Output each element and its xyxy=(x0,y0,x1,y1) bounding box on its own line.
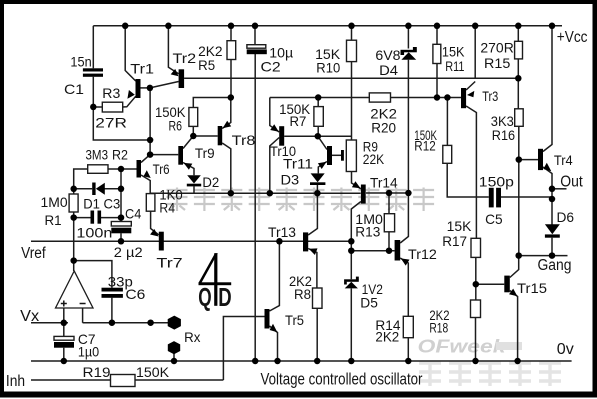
svg-text:R2: R2 xyxy=(112,147,128,163)
svg-text:C1: C1 xyxy=(64,81,84,97)
resistor R11 15K xyxy=(433,44,441,63)
wire op-amp output node to C6 top xyxy=(74,261,112,288)
svg-text:100n: 100n xyxy=(76,225,112,241)
resistor R12 150K xyxy=(443,145,452,163)
transistor Tr8 xyxy=(218,126,223,145)
terminal pad Rx upper hexagon xyxy=(168,316,181,330)
svg-text:Inh: Inh xyxy=(6,373,25,390)
diode D2 xyxy=(187,175,201,183)
transistor Tr10 xyxy=(279,126,284,146)
resistor R19 150K xyxy=(111,375,136,387)
terminal pad Rx lower hexagon xyxy=(168,341,180,354)
wire op-amp output stub xyxy=(73,261,75,271)
wire C7 bottom lead xyxy=(63,348,65,361)
wire D1 left lead xyxy=(74,188,93,190)
wire Tr2 collector long line to R15 node xyxy=(184,77,518,79)
svg-text:Tr12: Tr12 xyxy=(408,246,437,262)
wire Rx lower stub xyxy=(173,354,175,362)
transistor Tr12 xyxy=(395,240,401,261)
svg-text:Tr4: Tr4 xyxy=(554,152,573,168)
node dot op-amp output xyxy=(70,257,77,264)
resistor R17 15K xyxy=(471,238,481,257)
resistor R20 2K2 xyxy=(369,93,390,102)
resistor R10 15K xyxy=(347,40,357,61)
wire R7 top lead xyxy=(317,98,319,107)
wire D4 top lead from rail xyxy=(407,26,409,49)
svg-text:R7: R7 xyxy=(290,113,307,129)
wire R18 bottom to 0v xyxy=(475,318,477,362)
wire Tr15 base line xyxy=(476,283,505,285)
svg-text:Tr11: Tr11 xyxy=(283,156,313,172)
svg-text:Tr13: Tr13 xyxy=(268,224,296,240)
wire y97.5 right segment to Tr3 base xyxy=(270,97,461,99)
wire +Vcc top rail xyxy=(93,25,562,27)
svg-text:R15: R15 xyxy=(484,55,511,71)
transistor Tr6 xyxy=(137,160,142,178)
resistor R8 2K2 xyxy=(313,288,323,308)
wire R5 top lead xyxy=(230,26,232,41)
node dots base lines xyxy=(190,133,197,140)
wire R1 top lead xyxy=(73,189,75,194)
svg-text:R12: R12 xyxy=(414,137,436,153)
resistor R13 1M0 xyxy=(384,214,394,232)
wire R14 bottom lead xyxy=(407,338,409,361)
node dots Gang line xyxy=(515,252,522,259)
svg-text:Tr2: Tr2 xyxy=(173,50,197,66)
svg-text:D6: D6 xyxy=(557,209,575,225)
op-amp input polarity signs xyxy=(61,301,86,307)
wire Vx line xyxy=(31,322,68,324)
wire Tr3 emitter diagonal xyxy=(466,82,475,91)
wire Tr9 base from node B xyxy=(150,154,178,156)
wire node x121 vertical xyxy=(120,169,122,221)
wire D4 bottom lead xyxy=(407,60,409,193)
wire Inh line xyxy=(31,379,223,381)
svg-text:Gang: Gang xyxy=(538,257,572,274)
wire R15 bottom to R16 xyxy=(517,59,519,109)
node dots Vref rail xyxy=(118,238,125,245)
wire R11 top lead xyxy=(436,26,438,45)
node dot Tr4 base xyxy=(516,156,523,163)
resistor R16 3K3 xyxy=(515,109,524,127)
wire R13 bottom lead xyxy=(388,232,390,251)
wire Vcc drop to Tr3 emitter corner xyxy=(474,26,476,79)
wire Tr6 collector diagonal xyxy=(141,155,150,163)
svg-text:Tr9: Tr9 xyxy=(195,145,215,161)
wire Tr12 collector up xyxy=(400,193,408,243)
wire R16 bottom to Tr4 base node and down to Gang xyxy=(518,126,520,255)
capacitor C7 1u0 bottom plate xyxy=(54,342,74,348)
svg-text:R4: R4 xyxy=(159,200,175,216)
svg-text:R5: R5 xyxy=(198,57,215,73)
node dot R2 Tr6 xyxy=(118,166,125,173)
svg-text:Out: Out xyxy=(560,174,583,191)
svg-text:Vx: Vx xyxy=(20,308,39,325)
watermark center company text xyxy=(167,188,435,212)
svg-text:Tr6: Tr6 xyxy=(153,161,170,177)
node dots on +Vcc rail xyxy=(122,23,129,30)
wire Gang line xyxy=(519,255,568,257)
wire 0v rail xyxy=(31,360,572,362)
svg-text:15n: 15n xyxy=(70,54,91,70)
wire Tr15 emitter to 0v xyxy=(510,291,518,362)
wire Tr5 collector to Vref xyxy=(270,241,280,311)
wire C5 right line to Out node xyxy=(501,196,552,198)
svg-text:2 µ2: 2 µ2 xyxy=(114,244,143,260)
wire C1 bottom to R3 node and loop to node A xyxy=(93,77,150,140)
capacitor C3 100n plates xyxy=(91,211,95,224)
wire C2 top lead xyxy=(254,26,256,45)
wire Inh riser to Tr5 base xyxy=(223,317,264,381)
resistor R18 2K2 xyxy=(471,300,481,318)
svg-text:R20: R20 xyxy=(371,120,396,136)
border frame xyxy=(0,0,597,4)
node dot Tr15 base xyxy=(473,281,480,288)
svg-text:1µ0: 1µ0 xyxy=(78,344,99,360)
svg-text:0v: 0v xyxy=(557,341,574,358)
wire Tr11 collector lead xyxy=(332,154,341,156)
capacitor C6 33p plates xyxy=(102,288,123,292)
svg-text:C4: C4 xyxy=(125,206,141,222)
svg-text:R17: R17 xyxy=(442,233,467,249)
resistor R14 2K2 xyxy=(403,316,413,337)
wire Tr10 base line xyxy=(284,135,318,137)
transistor Tr9 xyxy=(178,146,183,165)
wire node line y193 left xyxy=(150,192,361,194)
wire Tr4 base line xyxy=(519,159,538,161)
svg-text:270R: 270R xyxy=(480,40,513,56)
node dots Tr12 base line xyxy=(348,247,355,254)
transistor Tr13 xyxy=(303,232,308,251)
wire D1 right lead xyxy=(105,188,122,190)
svg-text:Tr3: Tr3 xyxy=(482,88,498,104)
svg-text:R8: R8 xyxy=(294,286,311,302)
wire R4 bottom to Tr7 emitter xyxy=(151,211,159,235)
transistor Tr14 xyxy=(361,185,366,204)
wire Tr4 collector to rail xyxy=(543,26,552,152)
capacitor C2 10u bottom plate xyxy=(247,49,267,54)
wire C3 right lead xyxy=(101,217,121,219)
node dots 0v rail xyxy=(61,358,68,365)
wire C7 top lead xyxy=(63,323,65,337)
resistor R2 3M3 xyxy=(88,165,108,174)
wire Tr13 emitter to R8 xyxy=(308,249,317,289)
svg-text:Rx: Rx xyxy=(184,329,200,345)
wire Tr11 emitter to D3 xyxy=(318,162,327,174)
wire Tr1 top lead from rail xyxy=(125,26,136,81)
svg-text:1M0: 1M0 xyxy=(41,194,68,210)
svg-text:R11: R11 xyxy=(445,58,464,74)
wire R1 node down to op-amp output xyxy=(73,218,75,261)
wire Tr5 emitter to 0v xyxy=(270,326,278,361)
wire R10 top lead xyxy=(351,26,353,40)
svg-text:D4: D4 xyxy=(379,62,398,78)
svg-text:Voltage controlled oscillator: Voltage controlled oscillator xyxy=(261,370,423,389)
wire R2 right lead xyxy=(108,168,121,170)
svg-text:D: D xyxy=(218,284,231,312)
wire R1 bottom lead xyxy=(73,212,75,218)
wire R6 top to R5 bottom xyxy=(193,98,231,108)
wire D2 cathode stub xyxy=(193,186,195,193)
zener diode D4 6V8 xyxy=(401,50,417,53)
wire Tr8 emitter up xyxy=(222,98,231,129)
watermark big chinese bottom xyxy=(419,361,561,386)
node dot Vx plus input xyxy=(61,320,68,327)
svg-text:C2: C2 xyxy=(261,59,281,75)
wire Tr11 base diagonal xyxy=(318,136,327,149)
node dots D1 R1 C3 xyxy=(70,186,77,193)
wire C6 bottom lead xyxy=(111,298,113,323)
transistor Tr7 xyxy=(159,232,164,251)
capacitor C4 top plate outline xyxy=(111,222,131,227)
wire node A to Tr2 base diagonal xyxy=(150,82,179,88)
wire D6 bottom to Gang line xyxy=(551,238,553,256)
wire Tr10 emitter riser xyxy=(270,98,279,133)
svg-text:2K2: 2K2 xyxy=(375,329,399,345)
capacitor C7 top plate outline xyxy=(54,336,74,340)
wire Tr14 collector down bus xyxy=(351,202,361,280)
wire op-amp plus input stub xyxy=(63,308,65,323)
wire Tr4 emitter to Out and D6 xyxy=(543,167,552,225)
svg-text:22K: 22K xyxy=(363,151,385,167)
zener diode D5 1V2 xyxy=(344,279,359,282)
svg-text:R6: R6 xyxy=(169,118,183,134)
wire Tr2 emitter from rail xyxy=(168,26,178,74)
capacitor C4 2u2 bottom plate xyxy=(111,228,131,234)
wire R10 bottom to R9 top xyxy=(351,62,353,140)
resistor R7 150K xyxy=(314,107,323,127)
wire Tr10 collector down xyxy=(270,138,279,194)
wire Tr8 collector down xyxy=(222,143,231,193)
wire R13 top lead xyxy=(388,193,390,214)
wire C4 bottom to Vref xyxy=(120,233,122,241)
svg-text:R19: R19 xyxy=(83,364,111,380)
capacitor C2 top plate outline xyxy=(247,45,266,49)
transistor Tr3 xyxy=(461,88,466,108)
resistor R9 22K xyxy=(346,140,356,172)
transistor Tr11 xyxy=(327,146,332,165)
wire Tr12 base line xyxy=(351,250,394,252)
transistor Tr11 collector pad xyxy=(341,150,344,161)
wire R17 to R18 segment xyxy=(475,257,477,300)
svg-text:3M3: 3M3 xyxy=(86,147,109,163)
wire Tr15 collector up to Gang node xyxy=(510,256,519,278)
transistor Tr4 xyxy=(538,149,543,170)
transistor Tr5 xyxy=(265,309,270,329)
svg-text:D3: D3 xyxy=(281,172,300,188)
resistor R6 150K xyxy=(189,108,198,127)
svg-text:D2: D2 xyxy=(202,174,219,190)
svg-text:150p: 150p xyxy=(479,174,514,190)
svg-text:R18: R18 xyxy=(429,320,448,336)
wire Tr9 emitter to D2 xyxy=(183,163,194,176)
transistor Tr2 xyxy=(179,69,185,88)
wire R8 bottom to 0v xyxy=(316,308,318,361)
svg-text:C5: C5 xyxy=(485,211,503,227)
resistor R1 1M0 xyxy=(69,194,78,212)
svg-text:Tr8: Tr8 xyxy=(232,132,256,148)
resistor R4 1K0 xyxy=(146,194,155,212)
wire R12 bottom to C5 line xyxy=(447,163,489,197)
svg-text:R13: R13 xyxy=(355,224,380,240)
wire C3 left lead xyxy=(74,217,91,219)
wire minus input line to Rx xyxy=(83,322,168,324)
wire node line y193 right xyxy=(366,192,409,194)
transistor Tr1 xyxy=(136,79,141,98)
wire D3 cathode stub xyxy=(316,185,318,193)
wire node A vertical bus x150 xyxy=(149,88,151,155)
capacitor C5 150p plates xyxy=(489,188,494,208)
wire C2 ground bus xyxy=(254,54,256,361)
wire R5 bottom lead xyxy=(230,60,232,98)
svg-text:R3: R3 xyxy=(102,85,120,101)
svg-text:R16: R16 xyxy=(492,127,515,143)
svg-text:6V8: 6V8 xyxy=(375,47,400,63)
svg-text:Q: Q xyxy=(198,284,211,312)
op-amp U1 xyxy=(56,271,94,308)
svg-text:Tr14: Tr14 xyxy=(370,175,398,191)
node dot R15 bottom xyxy=(515,75,522,82)
wire op-amp minus input stub xyxy=(82,308,84,323)
wire Tr6 emitter down to R4 line xyxy=(141,175,150,193)
diode D3 xyxy=(311,173,325,182)
resistor R5 2K2 xyxy=(227,41,236,60)
node dots Out and C5 xyxy=(549,186,556,193)
svg-text:15K: 15K xyxy=(447,218,472,234)
wire R2 left lead xyxy=(74,169,88,189)
wire D5 bottom to 0v xyxy=(350,289,352,362)
node dot C1 R3 xyxy=(90,104,97,111)
svg-text:Tr5: Tr5 xyxy=(285,312,304,328)
svg-text:R10: R10 xyxy=(316,60,340,76)
wire Tr9 collector diagonal xyxy=(183,136,193,149)
node dots minus input line xyxy=(109,319,116,326)
logo 4QD xyxy=(199,253,232,306)
wire Tr13 collector up xyxy=(308,193,317,235)
svg-text:+Vcc: +Vcc xyxy=(557,29,588,46)
svg-text:27R: 27R xyxy=(95,115,127,131)
wire R6 bottom node to Tr8 base xyxy=(193,126,217,136)
wire Out stub xyxy=(552,188,567,190)
wire Tr12 emitter to R14 xyxy=(400,258,408,316)
wire R3 right lead to Tr1 emitter xyxy=(123,96,136,107)
wire Tr6 base xyxy=(121,168,137,170)
svg-text:D5: D5 xyxy=(360,295,378,311)
node dots y193 line xyxy=(228,190,235,197)
svg-text:Tr1: Tr1 xyxy=(130,61,154,77)
diode D6 xyxy=(545,224,560,234)
wire Vref rail xyxy=(31,240,351,242)
svg-text:R1: R1 xyxy=(45,212,62,228)
svg-text:150K: 150K xyxy=(136,364,170,380)
svg-text:Tr15: Tr15 xyxy=(517,280,547,296)
wire R3 left lead xyxy=(93,106,102,108)
node dots x150 bus xyxy=(147,85,154,92)
wire R15 top lead xyxy=(517,26,519,42)
svg-text:D1 C3: D1 C3 xyxy=(83,196,120,212)
wire R7 bottom lead xyxy=(317,126,319,136)
node dots on y97 line xyxy=(228,94,235,101)
wire Tr1 collector to node A xyxy=(141,87,150,89)
resistor R15 270R xyxy=(515,41,523,59)
wire R11 bottom lead xyxy=(436,64,438,98)
diode D1 xyxy=(92,183,95,196)
svg-text:C6: C6 xyxy=(125,286,145,302)
transistor Tr15 xyxy=(504,276,510,293)
svg-text:Vref: Vref xyxy=(21,245,46,262)
svg-text:OFweek: OFweek xyxy=(418,336,508,357)
wire R9 bottom to Tr14 emitter xyxy=(352,172,361,189)
wire base node to R9 top xyxy=(318,135,352,137)
capacitor C1 15n plates xyxy=(83,68,103,71)
wire C1 top lead xyxy=(92,26,94,69)
wire Tr3 collector down bus to R17 xyxy=(466,106,476,238)
resistor R3 27R xyxy=(102,102,122,112)
wire R12 top lead xyxy=(446,98,448,146)
svg-text:Tr7: Tr7 xyxy=(156,255,183,271)
